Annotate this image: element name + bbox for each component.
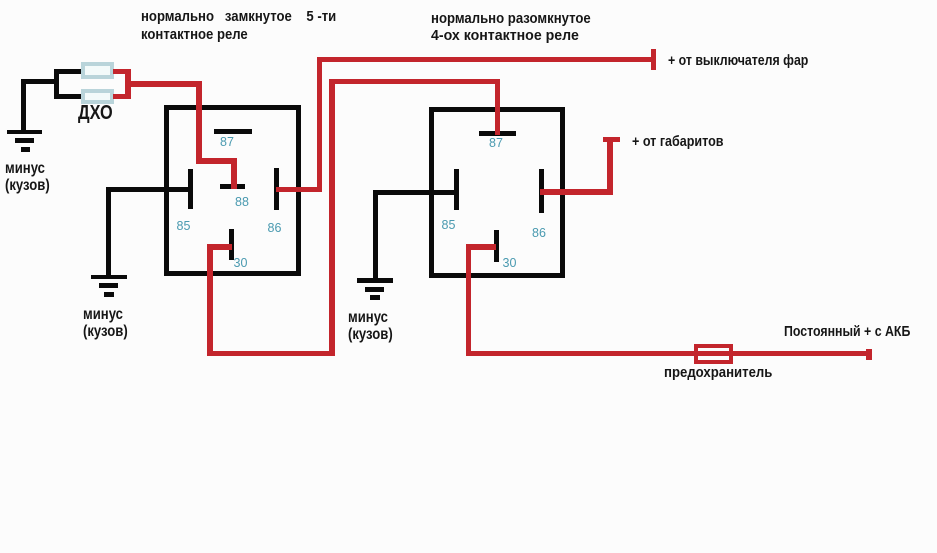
ground GND3: [0, 0, 1, 1]
wire: DXO negative lead to ground GND1 (black): [0, 0, 1, 1]
wire: relay K1 pin 30 to relay K2 pin 87 (red): [0, 0, 1, 1]
text: relay K2 title line 2: [431, 27, 579, 45]
text: relay K1 title (нормально замкнутое 5-ти контактное реле): [141, 8, 336, 44]
fuse предохранитель: [694, 344, 733, 364]
ground GND2: [0, 0, 1, 1]
relay K2 pin 85 label: [442, 218, 456, 232]
wire: relay K2 pin 85 to ground GND3 (black): [0, 0, 1, 1]
wire: relay K1 pin 85 to ground GND2 (black): [0, 0, 1, 1]
label минус (кузов) for GND1: [5, 160, 50, 194]
wire: relay K2 pin 86 to parking lights terminal (red): [0, 0, 1, 1]
DRL module ДХО: LED strip top: [81, 62, 114, 79]
relay K2 pin 87 label: [489, 136, 503, 150]
relay K1 pin 85 bar: [188, 169, 193, 209]
relay K1 box (5-pin relay): [164, 105, 301, 276]
wire: DXO positive lead to relay K1 pin 88 (red): [0, 0, 1, 1]
relay K1 pin 30 bar: [229, 229, 234, 260]
relay K2 box (4-pin relay): [429, 107, 565, 279]
relay K1 pin 86 label: [268, 221, 282, 235]
label минус (кузов) for GND2: [83, 306, 128, 340]
relay K2 pin 86 bar: [539, 169, 544, 213]
DRL negative terminal bracket (black): [0, 0, 1, 1]
label минус (кузов) for GND3: [348, 309, 393, 343]
relay K1 pin 88 label: [235, 195, 249, 209]
terminal tick: + от габаритов: [603, 137, 621, 143]
text: relay K2 title (нормально разомкнутое 4-ох контактное реле): [431, 10, 591, 28]
relay K1 pin 87 bar: [214, 129, 252, 134]
wire: relay K1 pin 86 to headlight switch terminal (red): [0, 0, 1, 1]
wire: relay K2 pin 30 to battery via fuse (red): [0, 0, 1, 1]
relay K1 pin 86 bar: [274, 168, 279, 210]
DRL module ДХО: LED strip bottom: [81, 89, 114, 105]
relay K1 pin 85 label: [177, 219, 191, 233]
text: Постоянный + с АКБ: [784, 323, 910, 341]
ground GND1: [0, 0, 1, 1]
terminal tick: Постоянный + с АКБ: [866, 349, 872, 360]
text: предохранитель: [664, 364, 772, 382]
DRL positive terminal bracket (red): [0, 0, 1, 1]
relay K1 pin 87 label: [220, 135, 234, 149]
relay K2 pin 30 label: [503, 256, 517, 270]
text: + от габаритов: [632, 133, 724, 151]
relay K2 pin 86 label: [532, 226, 546, 240]
terminal tick: + от выключателя фар: [651, 49, 657, 70]
text: + от выключателя фар: [668, 52, 808, 70]
relay K2 pin 85 bar: [454, 169, 459, 210]
relay K2 pin 30 bar: [494, 230, 499, 262]
label ДХО: [78, 104, 113, 122]
relay K1 pin 30 label: [234, 256, 248, 270]
relay K1 pin 88 bar: [220, 184, 245, 189]
relay K2 pin 87 bar: [479, 131, 516, 136]
